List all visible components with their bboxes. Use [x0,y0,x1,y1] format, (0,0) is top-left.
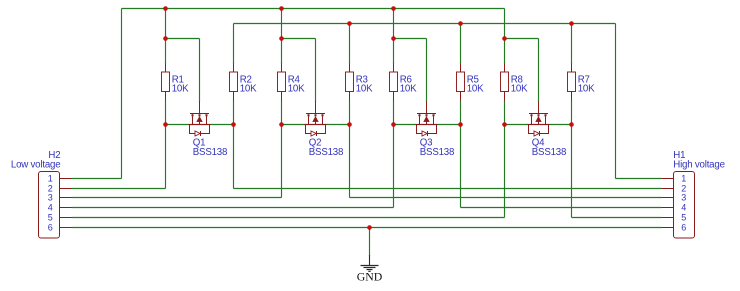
resistor R5 [457,64,465,101]
H2 pin 5 stub [60,217,72,219]
wire: HV rail down to R7 [571,24,573,65]
svg-text:10K: 10K [288,83,305,94]
junction dot (504,124) [502,122,507,127]
junction dot (350,24) [347,21,352,26]
wire: gate junction to Q1 gate [166,38,200,40]
wire: LV channel 4 riser down to bus row 5 [504,125,506,218]
wire: LV channel 2 bus from H2 pin 3 [72,197,282,199]
H2 pin 4 stub [60,207,72,209]
H2 pin 3 stub [60,197,72,199]
wire: HV channel 4 bus to H1 pin 5 [572,217,662,219]
wire: HV channel 3 bus to H1 pin 4 [461,207,662,209]
wire: R3 bottom to mid rail [349,100,351,125]
wire: Q1 gate riser [199,39,201,103]
junction dot (460,24) [458,21,463,26]
junction dot (234,124) [231,122,236,127]
wire: R8 bottom to mid rail [504,100,506,125]
wire: R1 column from LV rail to gate junction [165,9,167,39]
wire: gate junction down to R6 [393,39,395,65]
wire: LV channel 2 riser down to bus row 3 [281,125,283,198]
wire: Q3 gate riser [426,39,428,103]
wire: R5 bottom to mid rail [460,100,462,125]
H2 pin 2 stub [60,188,72,190]
ground symbol [361,255,379,271]
junction dot (166,8) [163,6,168,11]
svg-text:GND: GND [357,270,383,284]
svg-text:10K: 10K [578,83,595,94]
resistor R7 [568,64,576,101]
wire: R4 bottom to mid rail [281,100,283,125]
junction dot (504,38) [502,36,507,41]
wire: GND bus row 6 from H2 pin 6 to H1 pin 6 [72,227,662,229]
wire: R8 column from LV rail to gate junction [504,9,506,39]
wire: gate junction down to R4 [281,39,283,65]
junction dot (166,38) [163,36,168,41]
H1 pin 1 stub [662,178,674,180]
H1 pin 2 stub [662,188,674,190]
H1 pin 4 stub [662,207,674,209]
wire: Q4 gate riser [538,39,540,103]
wire: R2 bottom to mid rail [233,100,235,125]
junction dot (282,8) [279,6,284,11]
wire: R6 bottom to mid rail [393,100,395,125]
wire: HV rail down to R2 [233,24,235,65]
svg-text:BSS138: BSS138 [420,147,454,158]
resistor R6 [390,64,398,101]
svg-text:BSS138: BSS138 [193,147,227,158]
H2 pin 1 stub [60,178,72,180]
H1 pin 5 stub [662,217,674,219]
resistor R1 [162,64,170,101]
junction dot (166,124) [163,122,168,127]
wire: HV channel 1 riser down to bus row 2 [233,125,235,189]
svg-text:10K: 10K [511,83,528,94]
wire: HV channel 3 riser down to bus row 4 [460,125,462,208]
svg-text:4: 4 [681,203,686,213]
svg-text:6: 6 [681,223,686,233]
connector H2 (low voltage header) [39,172,60,239]
junction dot (282,124) [279,122,284,127]
wire: mid rail through Q1 [166,124,234,126]
transistor Q2 BSS138 [305,101,327,136]
junction dot (394,38) [391,36,396,41]
transistor Q4 BSS138 [528,101,550,136]
transistor Q3 BSS138 [416,101,438,136]
svg-text:10K: 10K [400,83,417,94]
wire: HV channel 2 bus to H1 pin 3 [350,197,662,199]
junction dot (394,8) [391,6,396,11]
svg-text:Low voltage: Low voltage [11,159,61,170]
junction dot (460,124) [458,122,463,127]
svg-text:1: 1 [681,174,686,184]
junction dot (572,24) [569,21,574,26]
svg-text:10K: 10K [356,83,373,94]
svg-text:4: 4 [48,203,53,213]
wire: LV channel 3 bus from H2 pin 4 [72,207,394,209]
svg-text:5: 5 [48,213,53,223]
svg-text:BSS138: BSS138 [309,147,343,158]
wire: R7 bottom to mid rail [571,100,573,125]
wire: R4 column from LV rail to gate junction [281,9,283,39]
wire: HV rail right riser to H1 pin 1 [615,24,617,179]
H1 pin 6 stub [662,227,674,229]
H1 pin 3 stub [662,197,674,199]
junction dot (370,228) [367,225,372,230]
wire: HV supply rail [234,23,616,25]
resistor R2 [230,64,238,101]
wire: mid rail through Q2 [282,124,350,126]
wire: LV channel 1 riser down to bus row 2 [165,125,167,189]
wire: gate junction to Q2 gate [282,38,316,40]
junction dot (282,38) [279,36,284,41]
transistor Q1 BSS138 [189,101,211,136]
wire: LV channel 4 bus from H2 pin 5 [72,217,505,219]
junction dot (350,124) [347,122,352,127]
connector H1 (high voltage header) [674,172,695,239]
svg-text:3: 3 [681,193,686,203]
wire: LV channel 3 riser down to bus row 4 [393,125,395,208]
svg-text:6: 6 [48,223,53,233]
wire: gate junction down to R1 [165,39,167,65]
resistor R3 [346,64,354,101]
wire: HV channel 4 riser down to bus row 5 [571,125,573,218]
wire: R1 bottom to mid rail [165,100,167,125]
wire: gate junction to Q4 gate [505,38,539,40]
svg-text:3: 3 [48,193,53,203]
svg-text:High voltage: High voltage [673,159,724,170]
junction dot (394,124) [391,122,396,127]
wire: gate junction down to R8 [504,39,506,65]
wire: HV rail down to R5 [460,24,462,65]
wire: GND tap down from bus [369,228,371,257]
wire: LV channel 1 bus from H2 pin 2 [72,188,166,190]
svg-text:10K: 10K [172,83,189,94]
wire: mid rail through Q4 [505,124,572,126]
wire: Q2 gate riser [315,39,317,103]
junction dot (572,124) [569,122,574,127]
wire: R6 column from LV rail to gate junction [393,9,395,39]
svg-text:10K: 10K [467,83,484,94]
wire: gate junction to Q3 gate [394,38,427,40]
wire: H2 pin 1 to riser [72,178,122,180]
wire: mid rail through Q3 [394,124,461,126]
svg-text:5: 5 [681,213,686,223]
resistor R4 [278,64,286,101]
resistor R8 [501,64,509,101]
svg-text:BSS138: BSS138 [532,147,566,158]
wire: HV channel 1 bus to H1 pin 2 [234,188,662,190]
wire: LV supply rail (top) [122,8,505,10]
H2 pin 6 stub [60,227,72,229]
wire: LV rail left riser to H2 pin 1 [121,9,123,179]
wire: HV channel 2 riser down to bus row 3 [349,125,351,198]
wire: HV rail down to R3 [349,24,351,65]
svg-text:1: 1 [48,174,53,184]
svg-text:10K: 10K [240,83,257,94]
wire: H1 pin 1 to riser [616,178,662,180]
